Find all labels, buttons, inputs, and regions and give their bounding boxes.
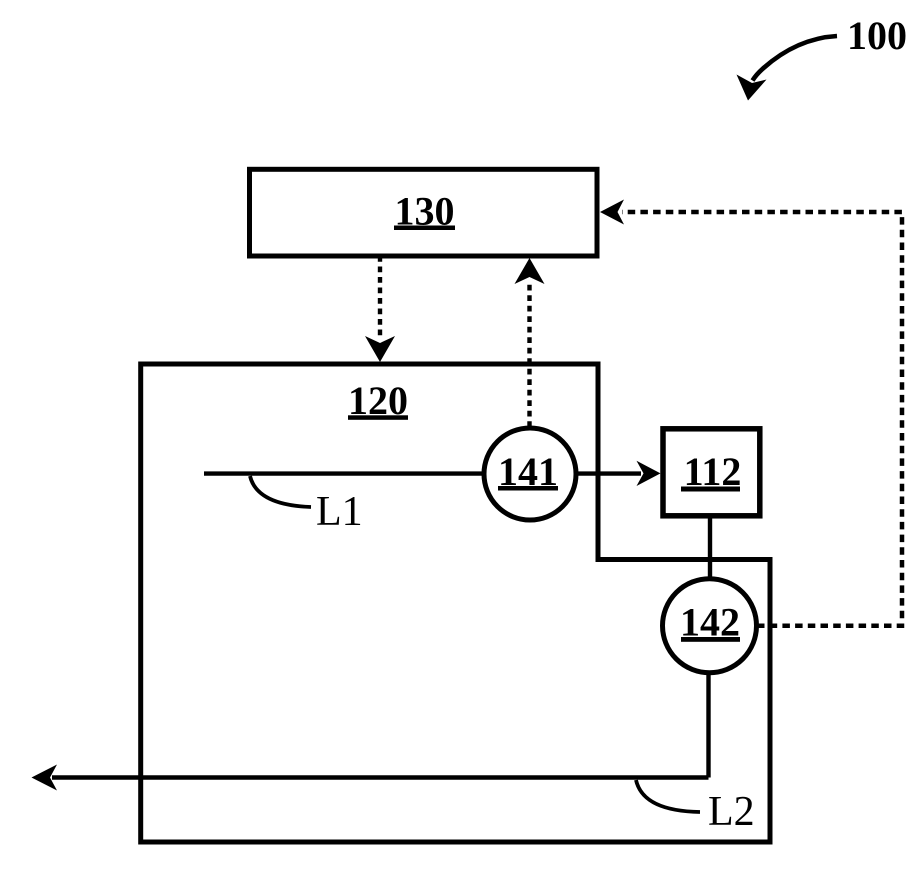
svg-text:L1: L1 <box>316 489 363 535</box>
wire 112 to 142 <box>708 516 712 580</box>
svg-text:100: 100 <box>847 13 907 58</box>
arrowhead into 120 top <box>365 336 395 362</box>
arrowhead into 130 bottom <box>515 258 545 284</box>
label 142 <box>680 600 740 645</box>
label L2 leader curve <box>636 780 700 812</box>
label 112 <box>681 449 741 494</box>
wire L2 line <box>52 775 709 779</box>
label L1 leader curve <box>250 476 311 507</box>
arrowhead into 112 <box>637 461 661 486</box>
label 141 <box>498 449 558 494</box>
box 120 (step-shaped enclosure) <box>141 364 770 842</box>
arrowhead into 130 right <box>600 200 624 225</box>
box 112 <box>663 429 760 516</box>
circle 141 <box>484 428 576 520</box>
label 120 <box>348 378 408 423</box>
reference arrow 100 <box>753 36 838 81</box>
wire 142 down to L2 <box>706 671 710 778</box>
svg-text:L2: L2 <box>708 789 755 835</box>
wire 141 to 112 arrow line <box>574 471 641 475</box>
arrowhead L2 left <box>32 765 58 791</box>
dashed feedback wire 142 to 130 <box>622 212 902 626</box>
circle 142 <box>663 579 757 673</box>
dashed wire 141 to 130 <box>527 281 531 427</box>
wire L1 line left segment <box>204 471 486 475</box>
dashed wire 130 to 120 <box>378 256 382 340</box>
box 130 <box>250 169 598 256</box>
label 130 <box>394 189 455 234</box>
